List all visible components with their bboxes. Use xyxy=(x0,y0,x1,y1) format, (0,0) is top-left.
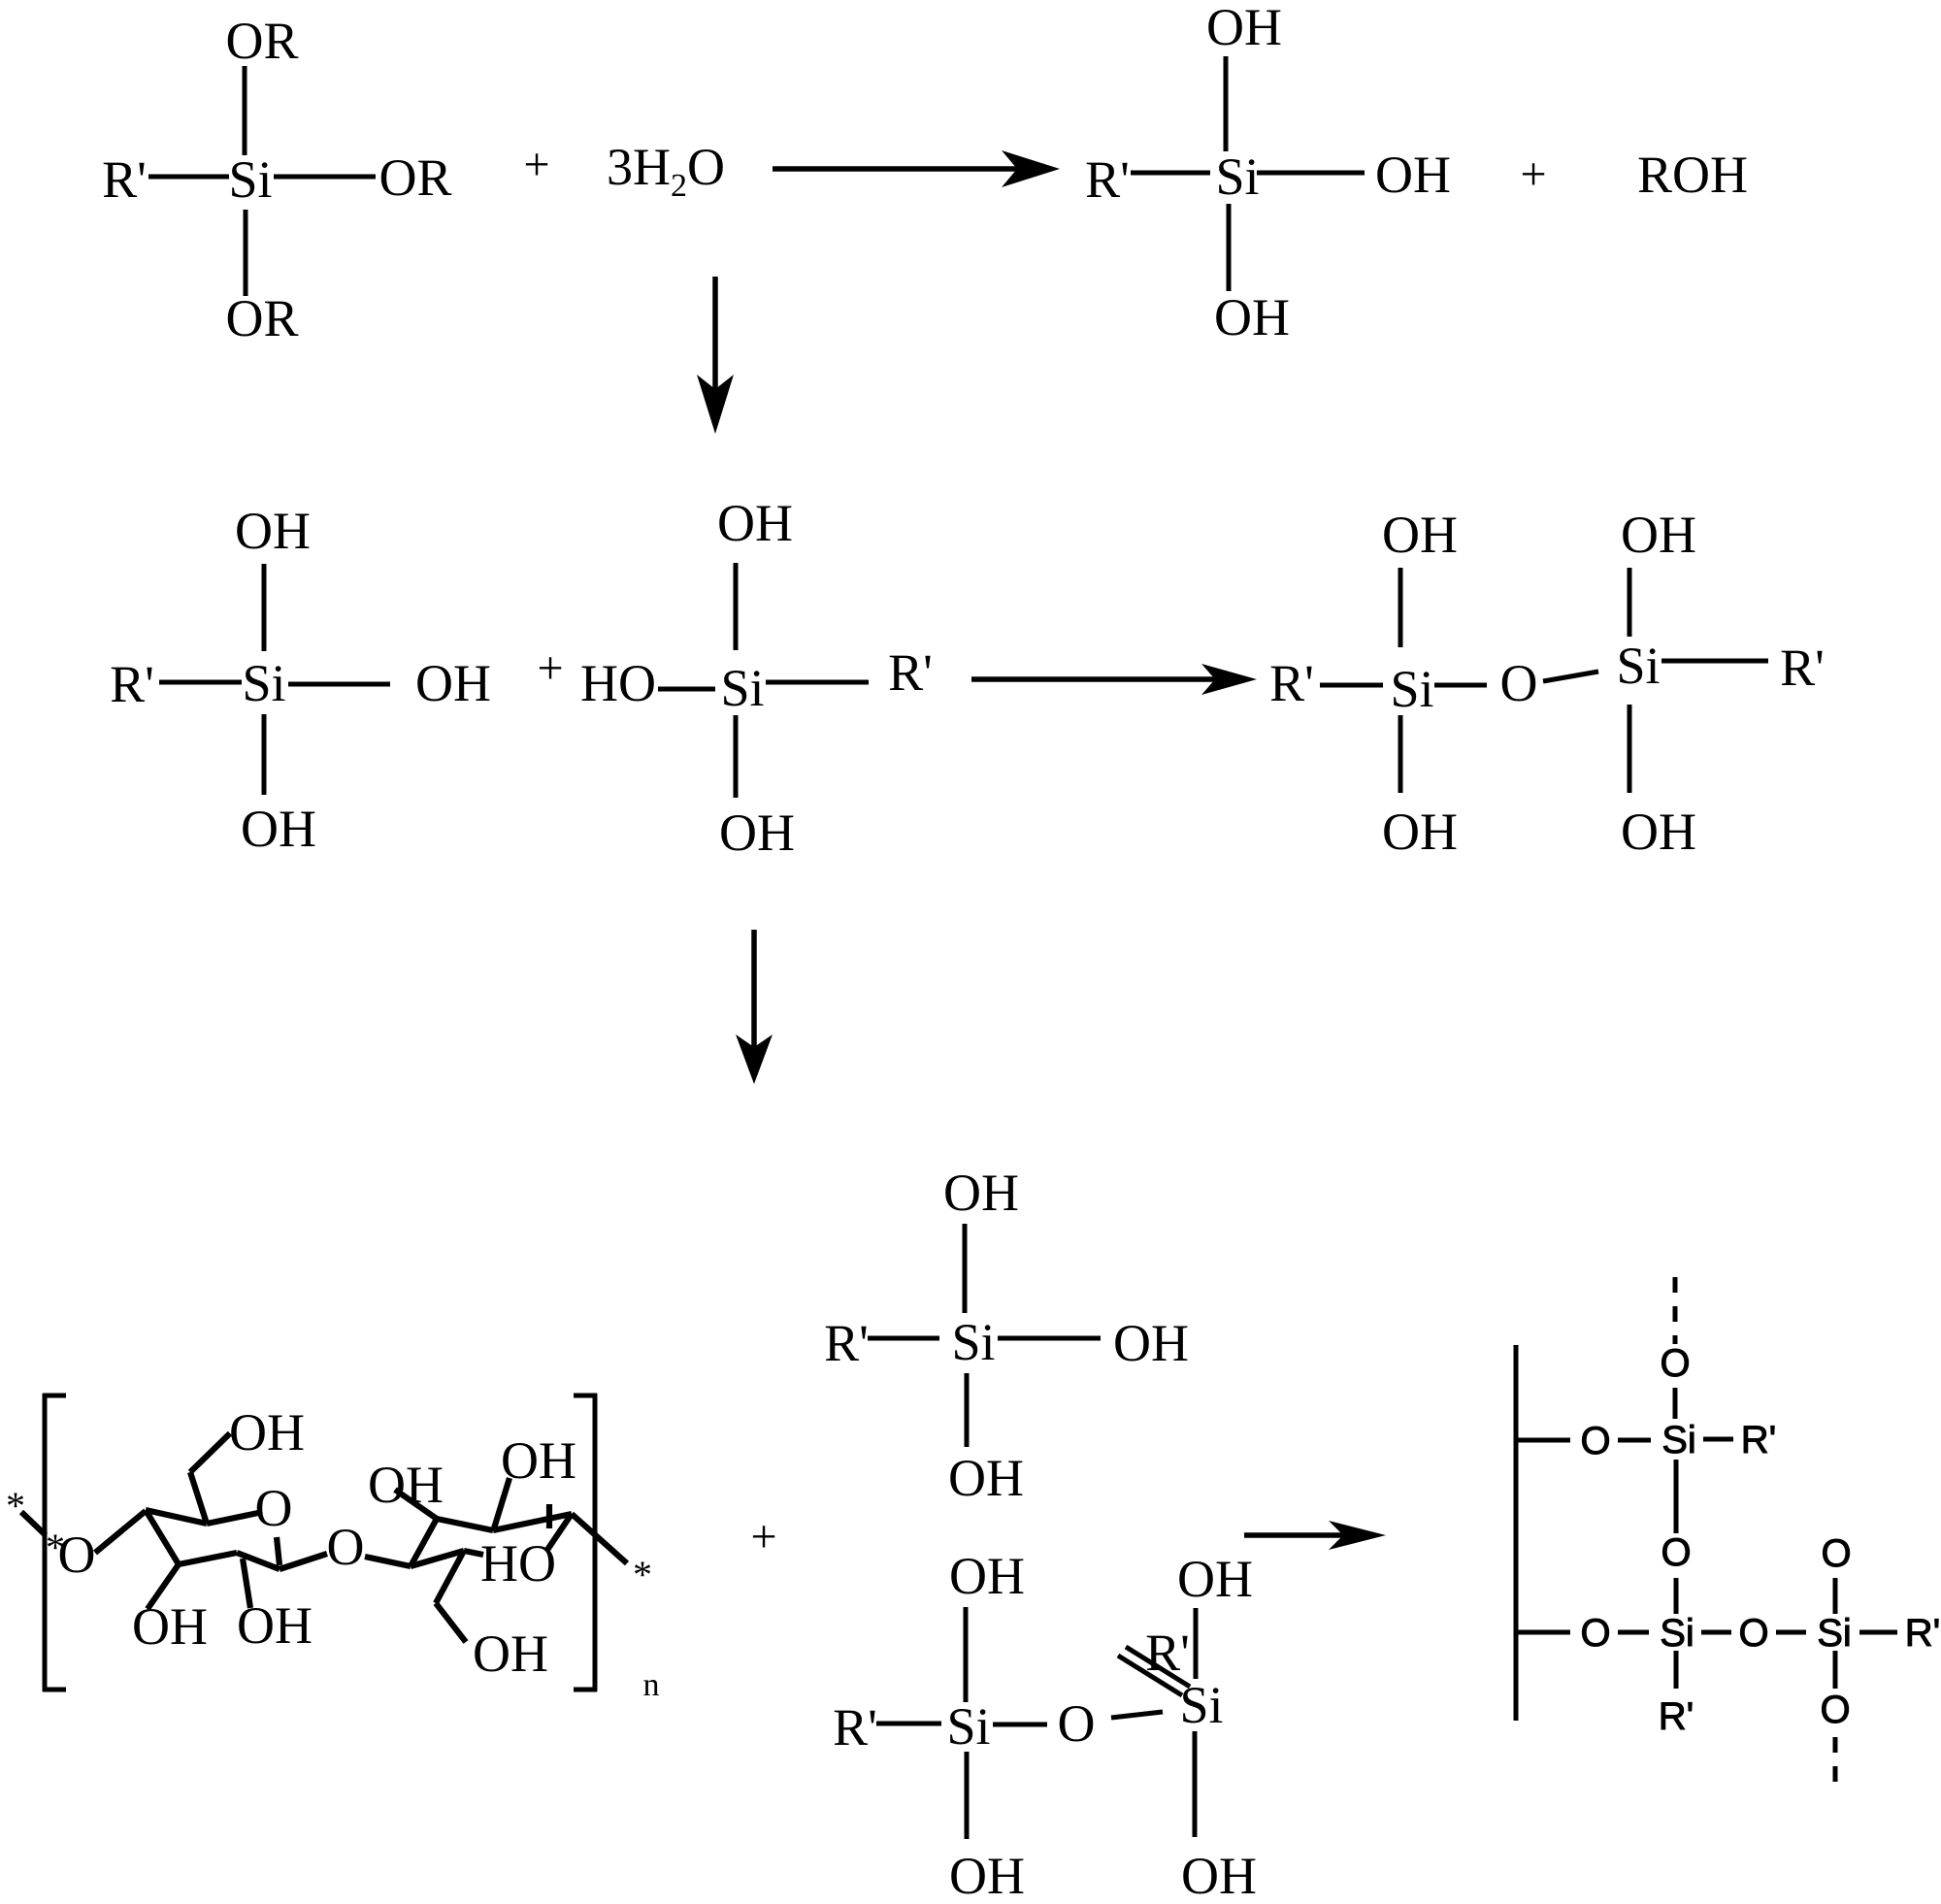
svg-text:R': R' xyxy=(1085,150,1130,209)
wire C3' to OH xyxy=(395,1490,437,1519)
svg-text:O: O xyxy=(1661,1531,1691,1574)
ring bond C5' to H xyxy=(464,1551,483,1555)
svg-text:OH: OH xyxy=(1206,0,1282,56)
wire backbone stub 2 xyxy=(1516,1630,1570,1635)
wire Si to OH top xyxy=(262,564,267,651)
wire Si1 to OH top xyxy=(964,1607,969,1702)
disiloxane product row2 xyxy=(1269,506,1825,861)
svg-text:OH: OH xyxy=(241,800,316,858)
svg-text:3H2O: 3H2O xyxy=(607,138,725,204)
wire C2' to OH xyxy=(494,1478,510,1528)
wire Si1 to OH bottom xyxy=(1398,715,1403,793)
wire Si1 to OH top xyxy=(1398,568,1403,647)
wire O to Si2 xyxy=(1543,672,1598,681)
wire R' to Si xyxy=(1131,171,1210,176)
ring bond C2-C1 xyxy=(237,1553,280,1569)
svg-text:O: O xyxy=(1821,1532,1851,1575)
svg-text:OH: OH xyxy=(1113,1314,1189,1372)
wire C3 to OH xyxy=(148,1564,179,1609)
wire Si to OH top xyxy=(963,1224,968,1313)
tick on C2'-C1' bond xyxy=(546,1504,552,1528)
cellulose backbone xyxy=(1514,1345,1519,1721)
wire C5 to CH2 xyxy=(190,1472,207,1524)
svg-text:OH: OH xyxy=(717,494,793,552)
wire Si c to R' xyxy=(1859,1630,1897,1635)
svg-text:OH: OH xyxy=(1382,803,1458,861)
double slash bond to R' xyxy=(1118,1656,1182,1695)
ring bond C4-C3 xyxy=(146,1510,179,1564)
svg-text:O: O xyxy=(327,1518,365,1576)
svg-text:R': R' xyxy=(110,655,154,713)
svg-text:+: + xyxy=(1520,148,1546,200)
svg-text:R': R' xyxy=(1905,1612,1941,1655)
svg-text:OH: OH xyxy=(949,1547,1025,1605)
svg-text:OH: OH xyxy=(948,1449,1024,1507)
wire Si1 to O xyxy=(993,1723,1047,1727)
wire Si c down to O xyxy=(1833,1651,1838,1689)
svg-text:O: O xyxy=(1058,1694,1096,1753)
svg-text:R': R' xyxy=(888,643,933,702)
svg-text:R': R' xyxy=(1145,1624,1190,1682)
svg-text:Si: Si xyxy=(228,150,272,209)
wire Si1 to OH bottom xyxy=(965,1752,970,1839)
wire Si to OH bottom xyxy=(965,1373,970,1447)
wire Si to OH bottom xyxy=(262,714,267,795)
svg-text:Si: Si xyxy=(1660,1612,1694,1655)
wire * to O xyxy=(21,1512,46,1535)
dashed continuation down xyxy=(1833,1737,1838,1795)
ring bond C2'-C1' xyxy=(493,1514,572,1530)
svg-text:Si: Si xyxy=(1390,660,1433,718)
svg-text:OH: OH xyxy=(949,1847,1025,1904)
cellulose repeat unit xyxy=(6,1394,660,1703)
svg-text:O: O xyxy=(1500,654,1538,712)
wire C5' to CH2 xyxy=(436,1551,464,1603)
wire Si2 to OH bottom xyxy=(1628,705,1632,793)
ring bond C5-O5 xyxy=(207,1513,258,1524)
svg-text:R': R' xyxy=(824,1314,869,1372)
wire HO to Si xyxy=(658,687,715,692)
wire O down to Si b xyxy=(1674,1578,1679,1614)
svg-text:OH: OH xyxy=(132,1597,208,1656)
svg-text:OH: OH xyxy=(501,1431,576,1490)
ring bond C3-C2 xyxy=(179,1553,237,1564)
silanetriol A left xyxy=(110,502,491,858)
svg-text:Si: Si xyxy=(1215,148,1259,206)
wire R' to Si xyxy=(868,1336,939,1341)
svg-text:R': R' xyxy=(1741,1419,1777,1461)
wire O to Si b xyxy=(1618,1630,1649,1635)
wire Si to OH top xyxy=(734,563,739,650)
wire Si to OH right xyxy=(1257,171,1365,176)
svg-text:OH: OH xyxy=(943,1164,1019,1222)
svg-text:OH: OH xyxy=(368,1456,444,1514)
wire Si to OR top xyxy=(243,66,247,155)
wire Si b to O right xyxy=(1701,1630,1731,1635)
bracket right xyxy=(574,1394,597,1691)
svg-text:Si: Si xyxy=(946,1697,990,1756)
wire CH2 to OH xyxy=(190,1433,230,1472)
svg-text:OH: OH xyxy=(1375,146,1451,204)
wire Si to OR right xyxy=(274,175,376,180)
svg-text:+: + xyxy=(523,139,549,190)
disiloxane bottom xyxy=(833,1547,1257,1904)
wire Si2 to R' xyxy=(1661,659,1768,664)
wire Si to OH right xyxy=(288,682,390,687)
wire O to Si2 xyxy=(1111,1712,1163,1718)
dashed continuation up xyxy=(1673,1277,1678,1344)
svg-text:O: O xyxy=(255,1479,293,1537)
wire Si to OH top xyxy=(1224,56,1229,151)
svg-text:R': R' xyxy=(102,150,147,209)
wire R' to Si1 xyxy=(1320,683,1383,688)
svg-text:O: O xyxy=(1580,1420,1610,1462)
wire backbone stub 1 xyxy=(1516,1438,1570,1443)
ring bond C4'-C5' xyxy=(411,1551,464,1566)
svg-text:Si: Si xyxy=(1817,1612,1852,1655)
wire Si a to R' xyxy=(1703,1437,1733,1442)
svg-text:OR: OR xyxy=(225,289,298,347)
svg-text:O: O xyxy=(1580,1612,1610,1655)
wire glycosidic O to C4' xyxy=(365,1557,411,1566)
svg-text:R': R' xyxy=(833,1698,877,1756)
svg-text:OH: OH xyxy=(415,654,491,712)
ring bond C4-C5 xyxy=(146,1510,207,1524)
ring bond C4'-C3' xyxy=(411,1519,437,1566)
svg-text:n: n xyxy=(643,1667,660,1703)
svg-text:O: O xyxy=(1820,1689,1850,1731)
wire O to Si c xyxy=(1776,1630,1806,1635)
svg-text:R': R' xyxy=(1659,1695,1694,1738)
wire Si a down to O xyxy=(1674,1460,1679,1533)
silanetriol bottom middle xyxy=(824,1164,1189,1507)
svg-text:R': R' xyxy=(1780,639,1825,697)
wire C1 to glycosidic O xyxy=(280,1554,327,1569)
svg-text:*: * xyxy=(633,1553,652,1596)
svg-text:OH: OH xyxy=(1181,1847,1257,1904)
svg-text:OH: OH xyxy=(229,1403,305,1461)
wire R' to Si1 xyxy=(876,1722,941,1726)
svg-text:OH: OH xyxy=(719,804,795,862)
svg-text:*: * xyxy=(6,1484,25,1527)
svg-text:ROH: ROH xyxy=(1637,146,1748,204)
svg-text:OH: OH xyxy=(235,502,311,560)
arrow row1 right xyxy=(773,150,1060,187)
wire O to Si a xyxy=(1618,1438,1651,1443)
wire Si to OH right xyxy=(998,1336,1101,1341)
down arrow 2 xyxy=(736,930,773,1084)
arrow row2 xyxy=(971,664,1257,695)
svg-text:O: O xyxy=(1660,1342,1690,1385)
svg-text:O: O xyxy=(1738,1612,1768,1655)
svg-text:Si: Si xyxy=(1661,1419,1696,1461)
svg-text:Si: Si xyxy=(720,659,764,717)
wire R' to Si xyxy=(148,175,229,180)
wire Si1 to O xyxy=(1434,683,1487,688)
svg-text:+: + xyxy=(537,642,563,694)
svg-text:OH: OH xyxy=(473,1625,548,1683)
svg-text:HO: HO xyxy=(480,1534,556,1592)
svg-text:OH: OH xyxy=(1382,506,1458,564)
svg-text:Si: Si xyxy=(1616,637,1660,695)
wire Si2 to OH bottom xyxy=(1193,1731,1198,1837)
svg-text:OH: OH xyxy=(1621,803,1696,861)
wire O down to Si a xyxy=(1673,1388,1678,1419)
silanetriol B xyxy=(580,494,933,862)
wire CH2 to OH xyxy=(436,1603,466,1642)
wire Si c up to O xyxy=(1833,1578,1838,1614)
wire O to C4 xyxy=(95,1511,146,1553)
wire C1' to HO xyxy=(547,1514,572,1550)
svg-text:OH: OH xyxy=(1177,1550,1253,1608)
svg-text:OR: OR xyxy=(378,148,451,207)
wire Si to R' xyxy=(766,680,869,685)
bracket left xyxy=(43,1394,66,1691)
svg-text:OH: OH xyxy=(1214,288,1290,346)
wire Si2 to OH top xyxy=(1628,568,1632,637)
down arrow 1 xyxy=(697,277,734,434)
svg-text:O: O xyxy=(58,1526,96,1584)
silanetriol R'-Si(OH)3 top-right xyxy=(1085,0,1451,346)
svg-text:OH: OH xyxy=(1621,506,1696,564)
svg-text:R': R' xyxy=(1269,654,1314,712)
wire Si2 to OH top xyxy=(1194,1608,1199,1679)
svg-text:Si: Si xyxy=(1179,1676,1223,1734)
wire R' to Si xyxy=(159,680,242,685)
svg-text:HO: HO xyxy=(580,654,656,712)
arrow row3 xyxy=(1244,1521,1386,1550)
ring bond C3'-C2' xyxy=(437,1519,493,1530)
wire Si b down to R' xyxy=(1674,1651,1679,1689)
svg-text:Si: Si xyxy=(951,1313,995,1371)
wire Si to OR bottom xyxy=(244,210,248,296)
wire C1' to * right xyxy=(572,1514,627,1563)
wire Si to OH bottom xyxy=(734,715,739,798)
wire C2 to OH xyxy=(243,1559,250,1608)
ring bond O5-C1 xyxy=(277,1537,280,1565)
grafted network product xyxy=(1516,1277,1940,1795)
svg-text:OH: OH xyxy=(237,1596,313,1655)
svg-text:Si: Si xyxy=(242,654,285,712)
svg-text:OR: OR xyxy=(225,12,298,70)
wire Si to OH bottom xyxy=(1227,204,1232,291)
silane R'-Si(OR)3 top-left xyxy=(102,12,451,347)
svg-text:+: + xyxy=(750,1511,776,1562)
